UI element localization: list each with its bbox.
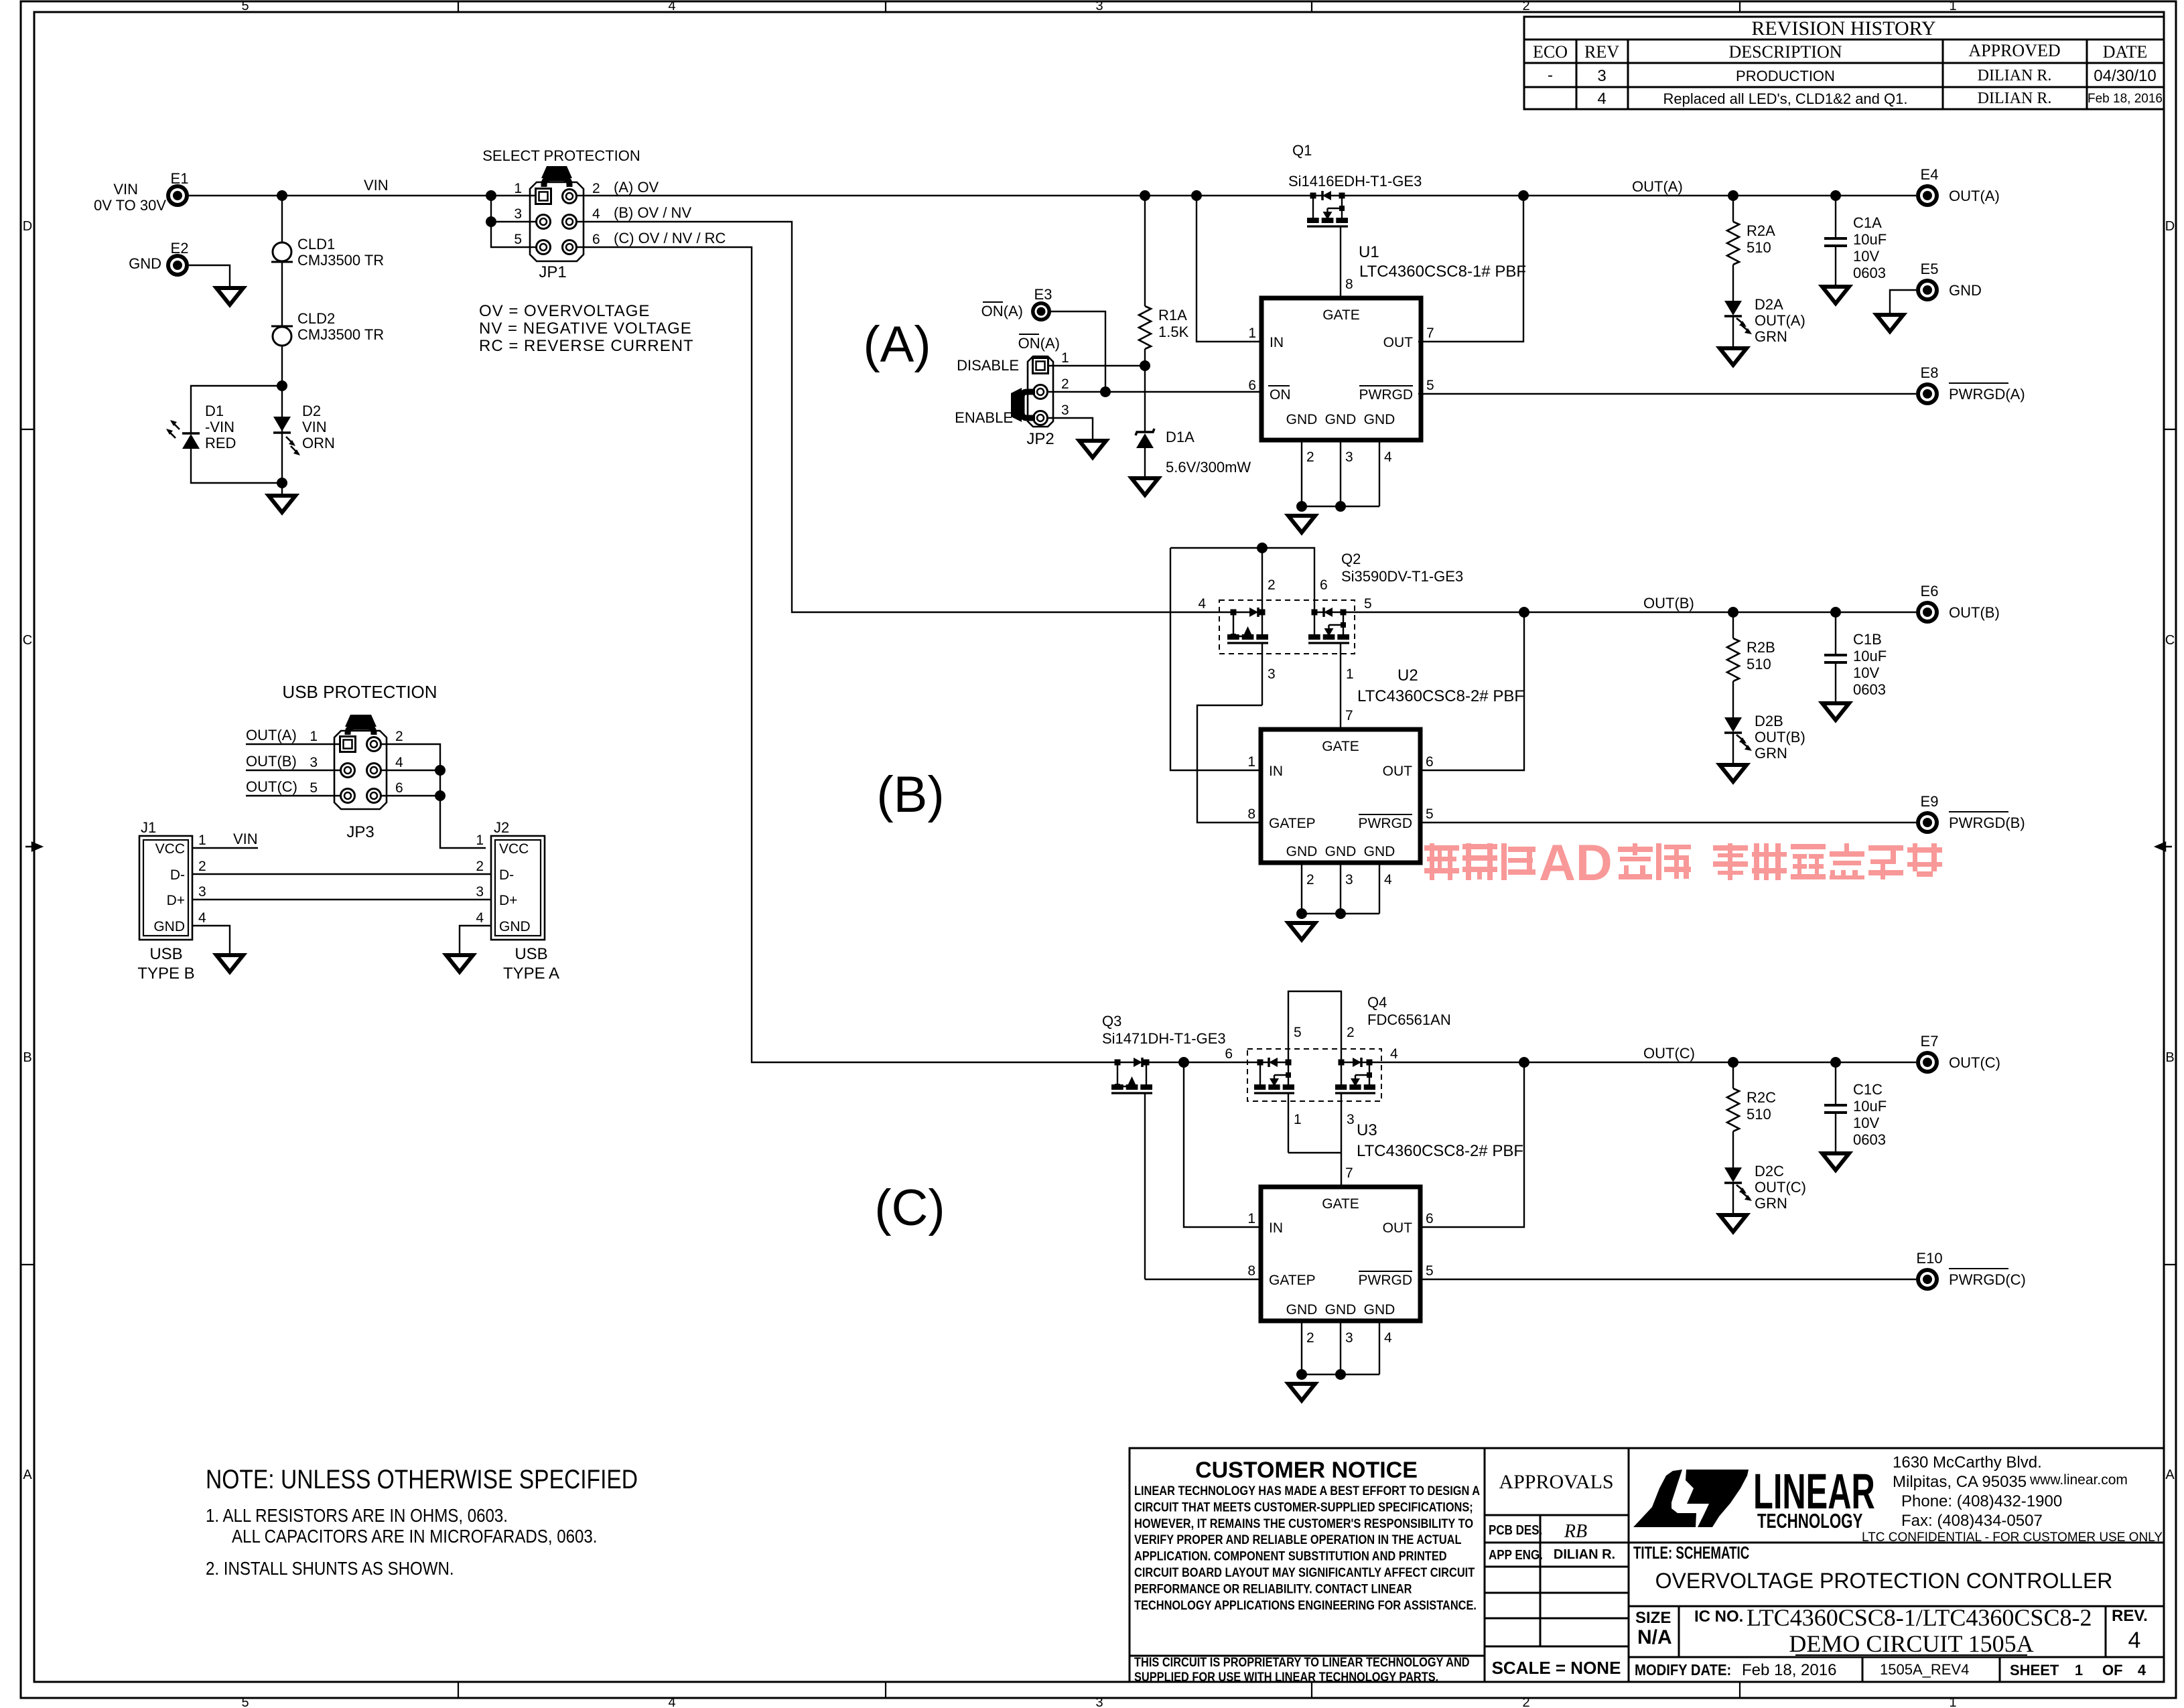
resistor R2B 510 xyxy=(1732,612,1734,638)
svg-text:5: 5 xyxy=(1426,806,1434,822)
svg-text:1: 1 xyxy=(310,729,318,744)
svg-text:U1: U1 xyxy=(1359,243,1379,261)
wire JP3 pin2 bus xyxy=(381,744,486,848)
svg-text:IN: IN xyxy=(1270,335,1284,350)
node D2 bottom junction xyxy=(277,478,287,488)
wire U3 OUT to rail xyxy=(1418,1062,1524,1227)
svg-text:GATEP: GATEP xyxy=(1269,1273,1316,1288)
svg-text:8: 8 xyxy=(1247,1263,1255,1279)
svg-text:3: 3 xyxy=(1345,449,1353,465)
wire C1B bottom xyxy=(1835,662,1836,702)
wire Q4 pins 5/2 tie loop xyxy=(1288,991,1341,1065)
svg-text:2. INSTALL SHUNTS AS SHOWN.: 2. INSTALL SHUNTS AS SHOWN. xyxy=(206,1557,454,1579)
wire E2 to ground xyxy=(189,265,230,287)
svg-text:R2C: R2C xyxy=(1747,1089,1776,1106)
svg-text:E1: E1 xyxy=(171,170,189,187)
svg-text:Milpitas, CA 95035: Milpitas, CA 95035 xyxy=(1893,1473,2027,1491)
turret E7 OUT(C) xyxy=(1916,1051,1939,1074)
svg-text:SUPPLIED FOR USE WITH LINEAR T: SUPPLIED FOR USE WITH LINEAR TECHNOLOGY … xyxy=(1134,1670,1438,1685)
svg-text:GND: GND xyxy=(1949,282,1982,299)
svg-text:DEMO CIRCUIT 1505A: DEMO CIRCUIT 1505A xyxy=(1789,1630,2033,1657)
wire E5 to ground xyxy=(1890,290,1916,313)
svg-text:GND: GND xyxy=(1325,412,1357,427)
wire C1A top xyxy=(1835,196,1836,238)
svg-text:OUT(B): OUT(B) xyxy=(246,753,297,770)
svg-text:PWRGD: PWRGD xyxy=(1359,387,1414,403)
svg-text:E4: E4 xyxy=(1921,166,1939,183)
svg-text:1.5K: 1.5K xyxy=(1158,324,1189,340)
svg-text:1: 1 xyxy=(514,181,522,196)
svg-text:C1A: C1A xyxy=(1853,214,1882,231)
LED D2B OUT(B) GRN xyxy=(1724,717,1742,732)
svg-text:VERIFY PROPER AND RELIABLE OPE: VERIFY PROPER AND RELIABLE OPERATION IN … xyxy=(1134,1533,1461,1547)
svg-text:0V TO 30V: 0V TO 30V xyxy=(94,197,166,214)
svg-text:Q4: Q4 xyxy=(1367,994,1387,1011)
svg-text:5: 5 xyxy=(310,780,318,796)
zone ticks left xyxy=(21,429,34,430)
svg-text:1: 1 xyxy=(1061,350,1069,366)
svg-text:U2: U2 xyxy=(1397,666,1418,685)
svg-text:-VIN: -VIN xyxy=(205,419,234,435)
svg-text:LTC4360CSC8-2# PBF: LTC4360CSC8-2# PBF xyxy=(1357,1142,1523,1160)
svg-text:USB PROTECTION: USB PROTECTION xyxy=(282,682,437,702)
svg-text:PWRGD: PWRGD xyxy=(1359,1273,1413,1288)
svg-text:A: A xyxy=(23,1468,32,1482)
wire CLD1 to CLD2 xyxy=(281,262,283,326)
svg-text:1: 1 xyxy=(1248,326,1256,341)
svg-text:8: 8 xyxy=(1247,806,1255,822)
Linear Technology logo mark xyxy=(1633,1470,1696,1527)
svg-text:GND: GND xyxy=(1325,1302,1357,1318)
svg-text:GND: GND xyxy=(1286,412,1318,427)
svg-text:APP ENG.: APP ENG. xyxy=(1489,1547,1543,1563)
svg-text:PWRGD(C): PWRGD(C) xyxy=(1949,1271,2026,1288)
title block outline xyxy=(1130,1448,2164,1682)
wire JP1 left pin5 feed xyxy=(491,196,536,247)
svg-text:3: 3 xyxy=(1095,0,1103,13)
wire D2A to ground xyxy=(1732,316,1734,347)
svg-text:E5: E5 xyxy=(1921,261,1939,277)
svg-text:D-: D- xyxy=(170,867,185,883)
svg-text:(A): (A) xyxy=(863,316,931,373)
wire U3 PWRGD to E10 xyxy=(1418,1279,1916,1280)
svg-text:4: 4 xyxy=(668,1695,675,1708)
svg-text:REV.: REV. xyxy=(2112,1607,2148,1625)
svg-text:SHEET: SHEET xyxy=(2010,1662,2059,1679)
Q2 dashed box xyxy=(1219,600,1355,654)
svg-text:USB: USB xyxy=(149,945,182,963)
svg-text:CMJ3500 TR: CMJ3500 TR xyxy=(297,326,384,343)
svg-text:CIRCUIT BOARD LAYOUT MAY SIGNI: CIRCUIT BOARD LAYOUT MAY SIGNIFICANTLY A… xyxy=(1134,1565,1475,1580)
customer notice body xyxy=(1134,1484,1480,1612)
ground E5 xyxy=(1876,315,1903,332)
svg-text:REV: REV xyxy=(1584,42,1619,62)
wire J1 D- to J2 xyxy=(192,873,491,875)
CLD2 CMJ3500 TR xyxy=(271,326,293,328)
ground JP2 pin3 xyxy=(1079,441,1106,457)
capacitor C1C 10uF 10V 0603 xyxy=(1824,1104,1847,1107)
node R2B junction xyxy=(1728,607,1738,618)
ground E2 xyxy=(216,288,243,305)
svg-text:PWRGD(A): PWRGD(A) xyxy=(1949,386,2025,403)
svg-text:ENABLE: ENABLE xyxy=(955,409,1013,426)
node R2C junction xyxy=(1728,1057,1738,1068)
wire JP1 pin6 C line xyxy=(577,247,1288,1062)
svg-text:RED: RED xyxy=(205,435,236,451)
wire VIN rail E1 to JP1 xyxy=(189,195,537,196)
svg-text:LTC4360CSC8-2# PBF: LTC4360CSC8-2# PBF xyxy=(1357,687,1524,705)
svg-text:CIRCUIT THAT MEETS CUSTOMER-SU: CIRCUIT THAT MEETS CUSTOMER-SUPPLIED SPE… xyxy=(1134,1500,1473,1514)
svg-text:510: 510 xyxy=(1747,239,1771,256)
svg-text:THIS CIRCUIT IS PROPRIETARY TO: THIS CIRCUIT IS PROPRIETARY TO LINEAR TE… xyxy=(1134,1655,1470,1670)
svg-text:2: 2 xyxy=(1306,872,1314,887)
svg-text:Si1416EDH-T1-GE3: Si1416EDH-T1-GE3 xyxy=(1288,173,1422,190)
node C1B junction xyxy=(1830,607,1841,618)
svg-text:5: 5 xyxy=(1426,1263,1434,1279)
wire Q4 rail right exit xyxy=(1341,1062,1916,1063)
svg-text:OUT(B): OUT(B) xyxy=(1643,595,1694,612)
svg-text:VIN: VIN xyxy=(302,419,327,435)
svg-text:DILIAN R.: DILIAN R. xyxy=(1978,90,2052,107)
svg-text:Si3590DV-T1-GE3: Si3590DV-T1-GE3 xyxy=(1341,568,1463,585)
svg-text:D: D xyxy=(23,219,32,234)
capacitor C1A 10uF 10V 0603 xyxy=(1824,237,1847,240)
ground D1/D2 xyxy=(269,496,295,512)
svg-text:GRN: GRN xyxy=(1755,1195,1787,1212)
wire C1C top xyxy=(1835,1062,1836,1105)
svg-text:2: 2 xyxy=(1522,1695,1529,1708)
svg-text:Feb 18, 2016: Feb 18, 2016 xyxy=(1742,1661,1836,1679)
svg-text:-: - xyxy=(1548,66,1553,84)
svg-text:1: 1 xyxy=(1247,1211,1255,1226)
svg-text:1630 McCarthy Blvd.: 1630 McCarthy Blvd. xyxy=(1893,1453,2042,1472)
svg-text:OUT(C): OUT(C) xyxy=(1755,1179,1806,1196)
svg-text:5.6V/300mW: 5.6V/300mW xyxy=(1166,459,1251,476)
svg-text:3: 3 xyxy=(476,884,484,900)
svg-text:FDC6561AN: FDC6561AN xyxy=(1367,1011,1451,1028)
wire R2C to D2C xyxy=(1732,1131,1734,1167)
wire Q2 pin3 to GATEP xyxy=(1197,705,1262,823)
svg-text:10uF: 10uF xyxy=(1853,648,1887,664)
svg-text:E9: E9 xyxy=(1921,793,1939,810)
resistor R2A 510 xyxy=(1732,196,1734,222)
node JP1 pin3 xyxy=(486,216,496,227)
svg-text:6: 6 xyxy=(1225,1046,1233,1062)
wire JP2 pin2 ON line to U1 pin6 xyxy=(1048,391,1261,393)
node OUT(C) return xyxy=(1519,1057,1529,1068)
svg-text:TYPE B: TYPE B xyxy=(137,965,194,983)
svg-text:GND: GND xyxy=(1325,844,1357,859)
wire D1A top xyxy=(1144,366,1146,432)
node C1A junction xyxy=(1830,190,1841,201)
svg-text:Q1: Q1 xyxy=(1292,142,1312,159)
svg-text:6: 6 xyxy=(395,780,403,796)
svg-text:C: C xyxy=(23,633,32,648)
svg-text:4: 4 xyxy=(1390,1046,1398,1062)
svg-text:ON: ON xyxy=(1270,387,1291,403)
svg-text:U3: U3 xyxy=(1357,1121,1377,1139)
svg-text:J2: J2 xyxy=(494,819,509,836)
svg-text:HOWEVER, IT REMAINS THE CUSTOM: HOWEVER, IT REMAINS THE CUSTOMER'S RESPO… xyxy=(1134,1516,1473,1531)
svg-text:6: 6 xyxy=(1248,378,1256,393)
zener D1A 5.6V/300mW xyxy=(1136,429,1154,435)
svg-text:1: 1 xyxy=(476,833,484,848)
svg-text:1: 1 xyxy=(198,833,206,848)
svg-text:GRN: GRN xyxy=(1755,328,1787,345)
svg-text:PWRGD(B): PWRGD(B) xyxy=(1949,814,2025,831)
wire JP1 pin2 to A rail xyxy=(577,195,1916,196)
svg-text:10uF: 10uF xyxy=(1853,1098,1887,1115)
svg-text:GND: GND xyxy=(1364,412,1395,427)
svg-text:7: 7 xyxy=(1345,708,1353,723)
JP3 shunt 1-2 xyxy=(348,727,374,735)
wire J1 GND to ground xyxy=(192,926,230,954)
watermark red text xyxy=(1424,835,1942,892)
wire JP1 pin3 feed xyxy=(491,221,536,222)
capacitor C1B 10uF 10V 0603 xyxy=(1824,654,1847,656)
Q2 right FET xyxy=(1312,610,1318,616)
svg-text:OUT: OUT xyxy=(1383,335,1414,350)
svg-text:D: D xyxy=(2165,219,2175,234)
ground D2C xyxy=(1720,1215,1747,1232)
centre arrow left xyxy=(25,843,42,851)
svg-text:GND: GND xyxy=(129,255,161,272)
svg-text:Q2: Q2 xyxy=(1341,551,1361,567)
centre arrow right xyxy=(2156,843,2172,851)
svg-text:LTC4360CSC8-1# PBF: LTC4360CSC8-1# PBF xyxy=(1359,263,1526,281)
svg-text:5: 5 xyxy=(1294,1025,1302,1040)
svg-text:2: 2 xyxy=(1061,376,1069,392)
svg-text:TECHNOLOGY APPLICATIONS ENGINE: TECHNOLOGY APPLICATIONS ENGINEERING FOR … xyxy=(1134,1597,1477,1612)
Q4 right FET xyxy=(1339,1060,1345,1066)
svg-text:PERFORMANCE OR RELIABILITY. C: PERFORMANCE OR RELIABILITY. CONTACT LINE… xyxy=(1134,1581,1412,1596)
turret E2 GND xyxy=(166,254,189,277)
svg-text:OUT(C): OUT(C) xyxy=(1949,1054,2000,1071)
svg-text:4: 4 xyxy=(1384,872,1392,887)
svg-text:D2B: D2B xyxy=(1755,713,1783,729)
svg-text:CLD1: CLD1 xyxy=(297,236,335,253)
ground C1B xyxy=(1822,703,1849,720)
svg-text:GATEP: GATEP xyxy=(1269,816,1316,831)
svg-text:LTC CONFIDENTIAL - FOR CUSTOME: LTC CONFIDENTIAL - FOR CUSTOMER USE ONLY xyxy=(1862,1531,2163,1545)
svg-text:APPROVED: APPROVED xyxy=(1968,41,2060,60)
svg-text:Phone: (408)432-1900: Phone: (408)432-1900 xyxy=(1901,1492,2062,1510)
wire JP1 pin4 B line xyxy=(577,222,1262,612)
svg-text:3: 3 xyxy=(514,206,522,222)
Q4 dashed box xyxy=(1247,1049,1381,1101)
svg-text:2: 2 xyxy=(476,859,484,874)
svg-text:LINEAR TECHNOLOGY HAS MADE A B: LINEAR TECHNOLOGY HAS MADE A BEST EFFORT… xyxy=(1134,1484,1480,1498)
svg-text:CLD2: CLD2 xyxy=(297,310,335,327)
svg-text:OUT(B): OUT(B) xyxy=(1949,604,2000,621)
ground C1A xyxy=(1822,287,1849,303)
node OUT(B) return xyxy=(1519,607,1529,618)
zone ticks top xyxy=(458,1,459,12)
svg-text:1505A_REV4: 1505A_REV4 xyxy=(1880,1661,1969,1678)
svg-text:7: 7 xyxy=(1345,1165,1353,1181)
svg-text:4: 4 xyxy=(198,910,206,926)
svg-text:3: 3 xyxy=(1597,67,1606,85)
turret E9 PWRGD(B) xyxy=(1916,811,1939,834)
svg-text:4: 4 xyxy=(476,910,484,926)
svg-text:3: 3 xyxy=(310,755,318,770)
wire Q3 gate to U3 GATEP xyxy=(1145,1279,1261,1280)
svg-text:IN: IN xyxy=(1269,1220,1283,1236)
svg-text:3: 3 xyxy=(1095,1695,1103,1708)
svg-text:VIN: VIN xyxy=(233,831,258,847)
svg-text:R2B: R2B xyxy=(1747,639,1775,656)
svg-text:GRN: GRN xyxy=(1755,745,1787,762)
svg-text:2: 2 xyxy=(198,859,206,874)
svg-text:SELECT PROTECTION: SELECT PROTECTION xyxy=(482,147,640,164)
svg-text:E10: E10 xyxy=(1916,1250,1942,1267)
svg-text:ECO: ECO xyxy=(1533,42,1568,62)
svg-text:04/30/10: 04/30/10 xyxy=(2094,67,2156,85)
wire D2B to ground xyxy=(1732,733,1734,764)
svg-text:E3: E3 xyxy=(1034,286,1052,303)
svg-text:J1: J1 xyxy=(141,819,156,836)
svg-text:3: 3 xyxy=(1268,666,1276,682)
svg-text:E6: E6 xyxy=(1921,583,1939,599)
svg-text:E8: E8 xyxy=(1921,364,1939,381)
node E3/ON junction xyxy=(1100,386,1111,397)
svg-text:3: 3 xyxy=(1345,1330,1353,1346)
wire J2 GND to ground xyxy=(460,926,491,954)
svg-text:D-: D- xyxy=(499,867,514,883)
svg-text:JP3: JP3 xyxy=(346,823,374,841)
wire CLD column top xyxy=(281,196,283,242)
svg-text:RC = REVERSE CURRENT: RC = REVERSE CURRENT xyxy=(479,337,694,355)
wire U1 OUT to rail xyxy=(1418,196,1523,342)
svg-text:VCC: VCC xyxy=(499,841,529,857)
wire R2B to D2B xyxy=(1732,681,1734,717)
svg-text:(C): (C) xyxy=(874,1180,945,1236)
wire CLD2 down xyxy=(281,346,283,483)
svg-text:2: 2 xyxy=(1268,577,1276,593)
svg-text:SIZE: SIZE xyxy=(1635,1609,1671,1627)
JP1 shunt 1-2 xyxy=(544,178,569,187)
svg-text:3: 3 xyxy=(1347,1112,1355,1127)
svg-text:OV = OVERVOLTAGE: OV = OVERVOLTAGE xyxy=(479,302,650,320)
node OUT(A) return xyxy=(1518,190,1529,201)
wire C1A bottom xyxy=(1835,246,1836,285)
svg-text:OUT(B): OUT(B) xyxy=(1755,729,1805,745)
wire JP2 pin1 to R1A/D1A xyxy=(1048,365,1145,366)
svg-text:2: 2 xyxy=(1306,449,1314,465)
node JP3 pin4 xyxy=(435,765,446,776)
svg-text:0603: 0603 xyxy=(1853,681,1886,698)
svg-text:C1B: C1B xyxy=(1853,631,1882,648)
wire U1 PWRGD to E8 xyxy=(1418,393,1916,395)
svg-text:VIN: VIN xyxy=(364,177,389,194)
svg-text:3: 3 xyxy=(1345,872,1353,887)
svg-text:D2: D2 xyxy=(302,403,321,419)
svg-text:APPROVALS: APPROVALS xyxy=(1499,1471,1613,1493)
wire U3 IN drop xyxy=(1184,1062,1261,1227)
wire C1B top xyxy=(1835,612,1836,655)
wire JP2 pin3 to ground xyxy=(1048,418,1093,439)
svg-text:1: 1 xyxy=(1949,1695,1956,1708)
svg-text:REVISION HISTORY: REVISION HISTORY xyxy=(1751,17,1935,40)
LED D2 VIN ORN xyxy=(273,417,291,431)
ground D2A xyxy=(1720,348,1747,365)
svg-text:1. ALL RESISTORS ARE IN OHMS,: 1. ALL RESISTORS ARE IN OHMS, 0603. xyxy=(206,1504,508,1526)
LED D1 -VIN RED xyxy=(182,432,200,435)
LED D2A OUT(A) GRN xyxy=(1724,301,1742,315)
svg-text:JP1: JP1 xyxy=(539,263,566,281)
svg-text:2: 2 xyxy=(1306,1330,1314,1346)
svg-text:ORN: ORN xyxy=(302,435,335,451)
svg-text:5: 5 xyxy=(1426,378,1434,393)
svg-text:2: 2 xyxy=(1347,1025,1355,1040)
resistor R1A 1.5K xyxy=(1139,306,1151,349)
turret E5 GND xyxy=(1916,279,1939,301)
svg-text:Q3: Q3 xyxy=(1102,1013,1121,1029)
turret E4 OUT(A) xyxy=(1916,184,1939,207)
svg-text:GND: GND xyxy=(1364,844,1395,859)
wire JP3 pin6 xyxy=(381,795,440,796)
svg-text:1: 1 xyxy=(1247,754,1255,770)
wire C1C bottom xyxy=(1835,1113,1836,1152)
svg-text:0603: 0603 xyxy=(1853,1131,1886,1148)
wire E3 to ON line xyxy=(1051,311,1105,392)
svg-text:DESCRIPTION: DESCRIPTION xyxy=(1728,42,1842,62)
svg-text:7: 7 xyxy=(1426,326,1434,341)
svg-text:PRODUCTION: PRODUCTION xyxy=(1736,68,1835,84)
wire Q2 rail right exit xyxy=(1314,612,1916,613)
svg-text:PWRGD: PWRGD xyxy=(1359,816,1413,831)
svg-text:B: B xyxy=(23,1050,31,1065)
svg-text:2: 2 xyxy=(1522,0,1529,13)
svg-text:ALL CAPACITORS ARE IN MICROFAR: ALL CAPACITORS ARE IN MICROFARADS, 0603. xyxy=(232,1525,597,1547)
svg-text:IN: IN xyxy=(1269,764,1283,779)
wire Q4 gates tie xyxy=(1288,1152,1341,1153)
svg-text:4: 4 xyxy=(1384,449,1392,465)
svg-text:4: 4 xyxy=(395,755,403,770)
svg-text:GATE: GATE xyxy=(1322,739,1359,754)
svg-text:GND: GND xyxy=(1364,1302,1395,1318)
wire JP3 pin4 xyxy=(381,770,440,771)
svg-text:2: 2 xyxy=(395,729,403,744)
node Q3/IN junction xyxy=(1178,1057,1189,1068)
svg-text:GND: GND xyxy=(1286,844,1318,859)
customer notice proprietary xyxy=(1134,1655,1470,1685)
svg-text:TITLE: SCHEMATIC: TITLE: SCHEMATIC xyxy=(1633,1543,1749,1563)
wire R2A to D2A xyxy=(1732,265,1734,301)
zone ticks bottom xyxy=(458,1682,459,1698)
wire D1A to ground xyxy=(1144,448,1146,477)
Q4 left FET xyxy=(1257,1060,1264,1066)
svg-text:3: 3 xyxy=(198,884,206,900)
svg-text:JP2: JP2 xyxy=(1026,430,1054,448)
wire to ground xyxy=(281,483,283,494)
LED D2C OUT(C) GRN xyxy=(1724,1167,1742,1182)
svg-text:D+: D+ xyxy=(167,893,185,908)
svg-text:VCC: VCC xyxy=(155,841,185,857)
svg-text:4: 4 xyxy=(1198,596,1206,612)
svg-text:R2A: R2A xyxy=(1747,222,1775,239)
svg-text:OUT(C): OUT(C) xyxy=(246,778,297,795)
wire R1A bottom xyxy=(1144,349,1146,366)
wire D1 branch top xyxy=(191,386,282,434)
svg-text:4: 4 xyxy=(1597,90,1606,108)
svg-text:6: 6 xyxy=(1426,1211,1434,1226)
svg-text:D+: D+ xyxy=(499,893,517,908)
svg-text:E7: E7 xyxy=(1921,1033,1939,1050)
svg-text:5: 5 xyxy=(514,232,522,247)
svg-text:DILIAN R.: DILIAN R. xyxy=(1978,67,2052,84)
svg-text:5: 5 xyxy=(241,1695,249,1708)
